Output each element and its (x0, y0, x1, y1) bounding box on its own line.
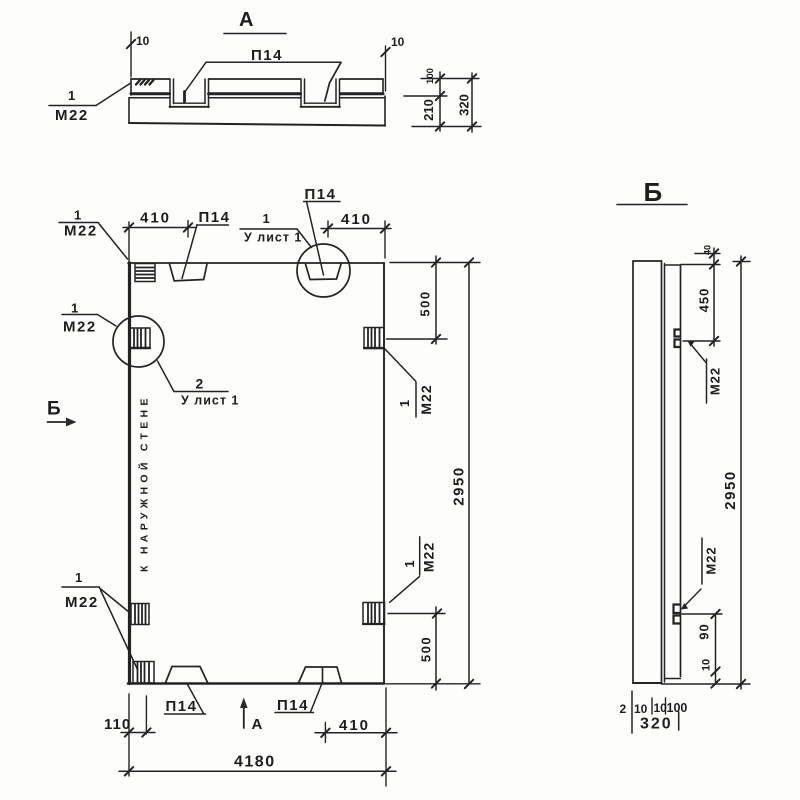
svg-text:100: 100 (667, 701, 688, 715)
svg-text:М22: М22 (55, 107, 89, 124)
svg-text:320: 320 (457, 94, 472, 116)
svg-text:10: 10 (391, 35, 405, 49)
svg-text:М22: М22 (418, 384, 434, 414)
svg-text:210: 210 (421, 99, 436, 121)
svg-text:П14: П14 (277, 697, 309, 714)
svg-text:М22: М22 (421, 542, 437, 572)
svg-text:Б: Б (644, 177, 663, 207)
svg-text:500: 500 (419, 636, 434, 662)
svg-text:1: 1 (402, 560, 417, 567)
svg-text:М22: М22 (65, 594, 99, 611)
svg-text:1: 1 (263, 211, 270, 226)
svg-text:10: 10 (701, 659, 713, 671)
svg-text:2950: 2950 (722, 470, 739, 509)
svg-text:М22: М22 (708, 367, 723, 395)
svg-text:90: 90 (697, 623, 712, 639)
svg-text:У лист 1: У лист 1 (181, 394, 239, 408)
svg-text:У лист 1: У лист 1 (244, 231, 302, 245)
svg-text:320: 320 (640, 716, 673, 733)
svg-text:1: 1 (71, 301, 78, 316)
svg-text:10: 10 (654, 701, 668, 715)
svg-text:410: 410 (339, 717, 370, 734)
svg-text:П14: П14 (199, 209, 231, 226)
svg-text:М22: М22 (63, 319, 97, 336)
svg-text:4180: 4180 (234, 754, 276, 771)
svg-text:1: 1 (75, 570, 82, 585)
svg-text:П14: П14 (251, 47, 283, 64)
svg-text:А: А (239, 9, 253, 31)
svg-text:П14: П14 (166, 698, 198, 715)
svg-text:М22: М22 (704, 546, 719, 574)
svg-text:1: 1 (68, 88, 75, 103)
svg-text:2: 2 (196, 376, 204, 392)
svg-text:450: 450 (697, 288, 712, 313)
svg-text:П14: П14 (305, 186, 337, 203)
svg-text:40: 40 (703, 245, 713, 255)
svg-text:410: 410 (341, 211, 372, 228)
svg-text:Б: Б (47, 399, 61, 420)
svg-text:1: 1 (74, 208, 81, 223)
svg-text:1: 1 (397, 400, 412, 407)
svg-text:А: А (252, 716, 263, 733)
svg-text:К НАРУЖНОЙ СТЕНЕ: К НАРУЖНОЙ СТЕНЕ (138, 394, 151, 572)
svg-text:500: 500 (418, 290, 433, 316)
svg-text:2: 2 (620, 702, 627, 716)
svg-text:М22: М22 (64, 223, 98, 240)
svg-text:2950: 2950 (451, 466, 468, 505)
svg-text:110: 110 (104, 716, 131, 733)
svg-text:100: 100 (425, 68, 436, 84)
svg-text:10: 10 (136, 34, 150, 48)
svg-text:10: 10 (634, 702, 648, 716)
svg-text:410: 410 (140, 210, 171, 227)
